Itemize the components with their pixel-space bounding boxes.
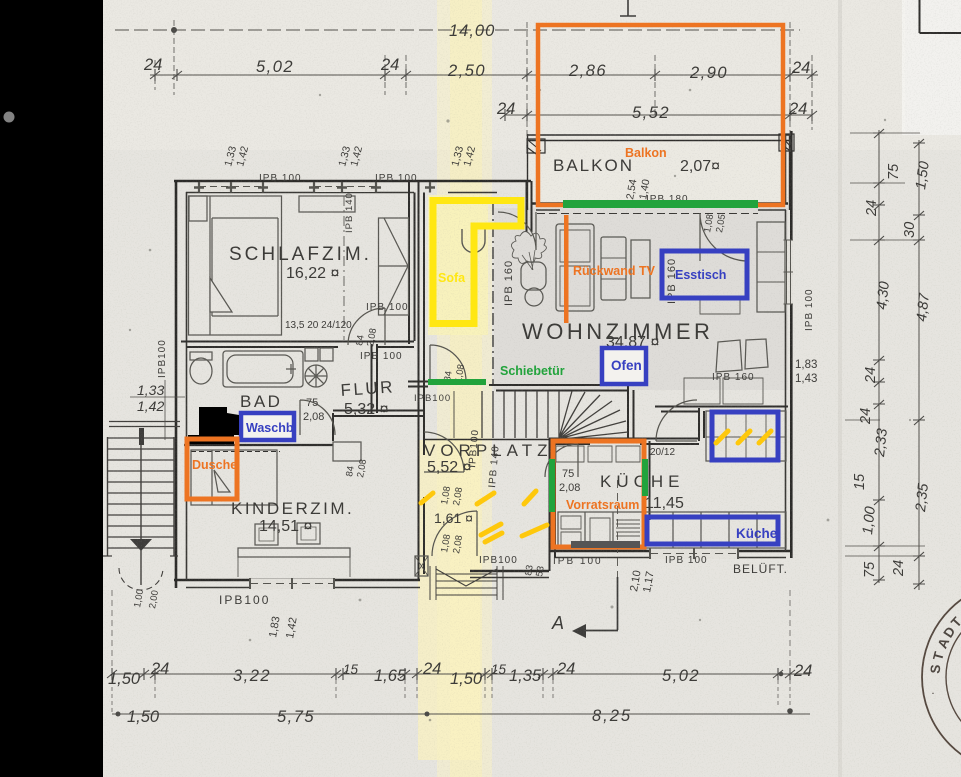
- svg-text:Küche: Küche: [736, 526, 778, 541]
- svg-text:Schiebetür: Schiebetür: [500, 364, 565, 378]
- svg-text:Rückwand TV: Rückwand TV: [573, 264, 656, 278]
- svg-text:Ofen: Ofen: [611, 358, 642, 373]
- svg-text:Sofa: Sofa: [438, 271, 466, 285]
- svg-text:Waschb: Waschb: [246, 421, 294, 435]
- svg-text:Esstisch: Esstisch: [675, 268, 726, 282]
- svg-text:Vorratsraum: Vorratsraum: [566, 498, 639, 512]
- svg-text:Dusche: Dusche: [192, 458, 237, 472]
- svg-text:Balkon: Balkon: [625, 146, 667, 160]
